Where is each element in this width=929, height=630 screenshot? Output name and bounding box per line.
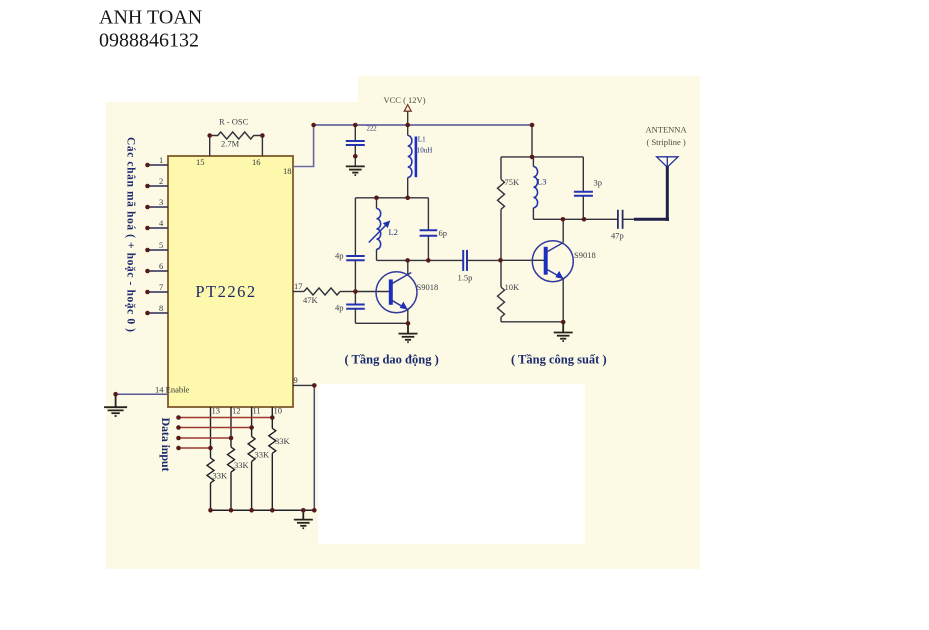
red data wire 3 [179,437,232,439]
svg-text:7: 7 [159,282,163,292]
IC U1 PT2262 body [168,156,293,407]
svg-text:L2: L2 [389,227,398,237]
inductor L1 10uH [408,136,433,198]
ground (Q2 emitter) [554,322,573,341]
capacitor C 222 [346,125,377,166]
tank bottom wire [377,259,464,261]
ground (enable) [104,394,127,416]
riser VCC to PA stage [531,125,533,157]
tank top wire [355,197,428,199]
svg-text:3: 3 [159,197,163,207]
svg-text:222: 222 [367,126,378,133]
ground (data rail) [294,510,313,528]
resistor R-OSC 2.7M [210,132,263,156]
transistor Q1 S9018 [376,260,438,323]
resistor 47K (pin17 to base) [293,288,355,295]
white patch over schematic [318,384,585,544]
svg-text:R - OSC: R - OSC [219,117,249,127]
svg-text:5: 5 [159,240,163,250]
svg-text:L3: L3 [537,177,546,187]
VCC power rail [314,124,532,126]
capacitor 6p [420,198,447,261]
svg-text:33K: 33K [234,460,250,470]
base wire T1 [355,291,389,293]
svg-text:14 Enable: 14 Enable [155,385,189,395]
pin labels 15 16 18 17 9 14 [155,157,303,416]
svg-text:6: 6 [159,261,163,271]
data column pin11 + resistor 33K [248,407,255,510]
pin numbers 1-8 [159,155,164,313]
capacitor 4p (lower) [335,303,365,324]
svg-text:11: 11 [253,406,261,416]
schematic cream background top-right extension [358,76,700,106]
VCC symbol [384,95,426,136]
svg-text:10: 10 [274,406,283,416]
svg-text:Data input: Data input [159,418,173,472]
tank left branch: wire + capacitor 4p (upper) [335,198,365,304]
svg-text:47p: 47p [611,231,624,241]
capacitor 47p [611,210,634,241]
enable wire pin14 [116,393,168,395]
svg-text:S9018: S9018 [417,282,439,292]
svg-text:0988846132: 0988846132 [99,30,199,52]
svg-text:10K: 10K [505,282,521,292]
svg-text:S9018: S9018 [574,250,596,260]
svg-text:PT2262: PT2262 [195,282,256,301]
red data wire 4 [179,447,211,449]
base wire T2 [501,259,545,261]
svg-text:33K: 33K [213,471,229,481]
svg-text:18: 18 [283,166,292,176]
inductor L2 (variable) [369,198,398,261]
svg-text:Các chân mã hoá ( + hoặc - ho: Các chân mã hoá ( + hoặc - hoặc 0 ) [125,137,137,332]
svg-text:12: 12 [232,406,241,416]
svg-text:17: 17 [294,281,303,291]
transistor Q2 S9018 [532,219,595,322]
svg-text:33K: 33K [275,436,291,446]
antenna (stripline) [634,125,687,221]
inductor L3 [533,157,546,219]
svg-text:6p: 6p [439,228,448,238]
svg-text:3p: 3p [594,178,603,188]
svg-text:ANH TOAN: ANH TOAN [99,7,202,29]
resistor 10K [498,260,505,322]
svg-text:L1: L1 [418,136,426,144]
red data wire 2 [179,427,252,429]
schematic cream background main [106,102,700,569]
wire pin9 vertical drop [313,385,315,510]
collector node wire [533,218,617,220]
data column pin10 + resistor 33K [269,407,276,510]
svg-text:( Stripline ): ( Stripline ) [647,137,686,147]
svg-text:15: 15 [196,157,205,167]
red data wire 1 [179,417,273,419]
svg-text:4p: 4p [335,303,344,313]
svg-text:VCC ( 12V): VCC ( 12V) [384,95,426,105]
pin 1 wire [148,165,169,313]
ground (222 cap) [346,166,365,175]
svg-text:16: 16 [252,157,261,167]
resistor 75K [498,157,505,260]
svg-text:2.7M: 2.7M [221,139,240,149]
svg-text:10uH: 10uH [417,147,433,155]
svg-text:9: 9 [294,375,298,385]
svg-text:13: 13 [212,406,221,416]
svg-text:1: 1 [159,155,163,165]
emitter bottom wire to ground [355,322,408,324]
svg-text:( Tầng dao động ): ( Tầng dao động ) [345,353,439,367]
svg-text:8: 8 [159,303,163,313]
svg-text:2: 2 [159,176,163,186]
PA top wire [501,156,583,158]
data bottom rail [211,509,315,511]
capacitor 1.5p (coupling) [458,250,501,283]
svg-text:( Tầng công suất ): ( Tầng công suất ) [511,353,607,367]
capacitor 3p [574,157,602,219]
ground (Q1 emitter) [399,323,418,342]
data column pin12 + resistor 33K [228,407,235,510]
svg-text:47K: 47K [303,295,319,305]
Q2 emitter bottom wire [501,321,563,323]
wire pin18 to rail [293,125,314,167]
svg-text:4p: 4p [335,251,344,261]
wire pin9 [293,384,314,386]
svg-text:ANTENNA: ANTENNA [646,125,688,135]
svg-text:75K: 75K [505,177,521,187]
svg-text:33K: 33K [255,450,271,460]
svg-text:1.5p: 1.5p [458,273,473,283]
data column pin13 + resistor 33K [207,407,214,510]
